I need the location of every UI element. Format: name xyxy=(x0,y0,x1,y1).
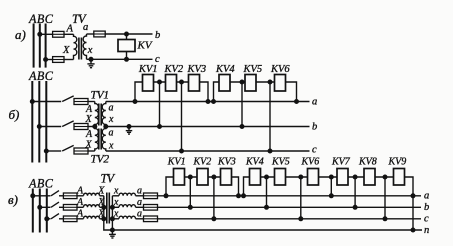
wire secondary neutral to winding b (v) xyxy=(112,206,119,208)
wire TV primary bottom stub (a) xyxy=(73,58,75,60)
switch blade phase C (v) xyxy=(51,214,59,219)
svg-text:a: a xyxy=(109,128,114,139)
wire secondary winding to fuse b (v) xyxy=(136,206,144,208)
node riser KV6/KV7 on line a (v) xyxy=(329,194,333,198)
wire secondary winding to fuse c (v) xyxy=(136,218,144,220)
node primary neutral row b (v) xyxy=(102,205,106,209)
node stub T KV1/KV2 (b) xyxy=(158,80,162,84)
stub to riser left of KV1 (v) xyxy=(166,177,174,196)
primary neutral bus (v) xyxy=(104,196,113,230)
svg-text:KV8: KV8 xyxy=(358,157,377,168)
svg-text:KV1: KV1 xyxy=(167,157,186,168)
svg-text:KV6: KV6 xyxy=(301,157,320,168)
junction busbar A / phase wire (b) xyxy=(30,100,34,104)
svg-text:b: b xyxy=(155,30,160,41)
transformer TV1 secondary winding (b) xyxy=(102,102,106,127)
svg-text:A: A xyxy=(76,197,84,208)
secondary neutral bus (v) xyxy=(111,196,113,230)
svg-text:TV1: TV1 xyxy=(91,90,109,102)
TV secondary winding phase b (v) xyxy=(119,205,136,208)
busbar A (b) xyxy=(31,81,33,163)
node primary neutral row c (v) xyxy=(102,217,106,221)
node riser KV4-left on line a (b) xyxy=(212,100,216,104)
svg-text:TV2: TV2 xyxy=(91,154,110,166)
busbar C (v) xyxy=(46,189,48,233)
line c (b) xyxy=(106,150,310,152)
link KV4-KV5 with riser to line b (v) xyxy=(261,177,275,207)
relay KV6 (b) xyxy=(275,75,286,92)
svg-text:a: a xyxy=(137,185,142,196)
fuse phase B (v) xyxy=(63,205,77,211)
riser KV9 right to line n (v) xyxy=(405,177,414,230)
busbar C (b) xyxy=(45,81,47,163)
wire primary winding to neutral phase B (v) xyxy=(100,206,104,208)
relay KV4 (b) xyxy=(219,75,230,92)
line c (v) xyxy=(158,218,422,220)
line a (b) xyxy=(106,101,310,103)
svg-text:X: X xyxy=(62,45,70,56)
relay KV (a) xyxy=(118,40,135,52)
svg-text:a: a xyxy=(312,96,317,107)
phase C wire to switch (b) xyxy=(46,150,61,152)
svg-text:A: A xyxy=(76,185,84,196)
node stub T KV7/KV8 (v) xyxy=(353,175,357,179)
wire secondary winding to fuse a (v) xyxy=(136,195,144,197)
svg-text:c: c xyxy=(312,145,317,156)
node riser KV6-right on line a (b) xyxy=(295,100,299,104)
TV secondary winding phase c (v) xyxy=(119,216,136,219)
link KV7-KV8 with riser to line b (v) xyxy=(348,177,364,207)
link KV5-KV6 with riser to line c (v) xyxy=(286,177,308,219)
fuse secondary b (v) xyxy=(144,205,158,211)
phase C wire to switch (v) xyxy=(47,218,51,220)
ground (b) xyxy=(126,127,132,135)
svg-text:x: x xyxy=(108,114,114,125)
TV primary winding phase C (v) xyxy=(84,216,100,219)
switch blade phase B (b) xyxy=(62,121,73,127)
riser to line a left of KV1 (b) xyxy=(135,82,143,102)
transformer TV secondary winding (a) xyxy=(83,34,86,58)
node ground junction (a) xyxy=(89,57,93,61)
link KV1-KV2 with riser to line b (b) xyxy=(154,82,166,127)
junction on busbar B (a) xyxy=(38,32,42,36)
riser KV4 left from line a (v) xyxy=(244,177,250,196)
wire c (a) xyxy=(87,58,153,60)
relay KV1 (v) xyxy=(174,169,185,186)
node stub T KV8/KV9 (v) xyxy=(383,175,387,179)
fuse FU2 (a) xyxy=(53,57,64,63)
relay KV2 (b) xyxy=(166,75,177,92)
line b (b) xyxy=(106,126,310,128)
ground (a) xyxy=(87,59,94,67)
svg-text:X: X xyxy=(85,114,93,125)
svg-text:a: a xyxy=(424,190,429,201)
node riser KV5/KV6 on line c (v) xyxy=(299,217,303,221)
junction busbar A / phase wire (v) xyxy=(31,194,35,198)
node neutral / ground junction (v) xyxy=(110,228,114,232)
phase A wire to switch (b) xyxy=(32,101,61,103)
node secondary neutral row b (v) xyxy=(110,205,114,209)
wire TV secondary bottom stub (a) xyxy=(86,58,88,60)
transformer TV2 primary winding (b) xyxy=(95,127,99,152)
riser KV3 right to line a (v) xyxy=(232,177,239,196)
relay KV1 (b) xyxy=(143,75,154,92)
node riser KV5/KV6 on line c (b) xyxy=(268,149,272,153)
wire b (a) xyxy=(105,33,152,35)
node riser KV4/KV5 on line b (b) xyxy=(240,125,244,129)
phase B wire to switch (b) xyxy=(39,126,61,128)
transformer TV core (a) xyxy=(79,38,82,60)
switch blade phase B (v) xyxy=(51,202,59,207)
relay KV2 (v) xyxy=(197,169,208,186)
wire fuse FU1 to TV primary A (a) xyxy=(64,33,74,35)
svg-text:ABC: ABC xyxy=(28,69,54,83)
busbar B (a) xyxy=(39,24,41,68)
link KV1-KV2 with riser to line b (v) xyxy=(185,177,198,207)
node stub T KV4/KV5 (b) xyxy=(240,80,244,84)
relay KV3 (v) xyxy=(221,169,232,186)
svg-text:KV9: KV9 xyxy=(388,157,407,168)
transformer TV2 core (b) xyxy=(99,129,101,150)
TV secondary winding phase a (v) xyxy=(119,193,136,196)
transformer TV2 secondary winding (b) xyxy=(102,127,106,152)
svg-text:KV2: KV2 xyxy=(164,64,184,75)
node ground junction on line b (b) xyxy=(127,125,131,129)
junction busbar C / phase wire (v) xyxy=(45,217,49,221)
node riser KV1/KV2 on line b (b) xyxy=(158,125,162,129)
junction busbar C / phase wire (b) xyxy=(44,149,48,153)
svg-text:KV2: KV2 xyxy=(193,157,212,168)
svg-text:X: X xyxy=(97,185,105,196)
transformer TV core (v) xyxy=(107,193,110,224)
node riser KV1/KV2 on line b (v) xyxy=(188,205,192,209)
node riser KV4-left on line a (v) xyxy=(242,194,246,198)
node stub T KV5/KV6 (v) xyxy=(299,175,303,179)
fuse FU3 (a) xyxy=(94,31,105,37)
svg-text:b: b xyxy=(312,121,317,132)
svg-text:x: x xyxy=(113,185,119,196)
svg-text:ABC: ABC xyxy=(28,177,54,191)
busbar C (a) xyxy=(45,24,47,68)
wire busbar C to fuse FU2 (a) xyxy=(46,59,53,61)
switch blade phase A (b) xyxy=(62,96,73,102)
node riser KV8/KV9 on line c (v) xyxy=(383,217,387,221)
node riser KV7/KV8 on line b (v) xyxy=(353,205,357,209)
node riser KV2/KV3 on line c (v) xyxy=(212,217,216,221)
node c / KV bottom junction (a) xyxy=(125,57,129,61)
link KV2-KV3 with riser to line c (v) xyxy=(208,177,221,219)
relay KV6 (v) xyxy=(308,169,319,186)
switch blade phase C (b) xyxy=(62,145,73,151)
svg-text:KV6: KV6 xyxy=(270,64,290,75)
fuse phase A (v) xyxy=(63,193,77,199)
node riser KV3-right on line a (b) xyxy=(206,100,210,104)
svg-text:KV5: KV5 xyxy=(243,64,263,75)
wire switch to fuse phase B (v) xyxy=(59,206,63,208)
svg-text:X: X xyxy=(85,140,93,151)
svg-text:x: x xyxy=(113,208,119,219)
svg-text:A: A xyxy=(85,129,93,140)
svg-text:TV: TV xyxy=(101,172,116,186)
node riser KV1-left on line a (v) xyxy=(164,194,168,198)
node stub T KV2/KV3 (v) xyxy=(212,175,216,179)
svg-text:x: x xyxy=(108,141,114,152)
wire primary winding to neutral phase A (v) xyxy=(100,195,104,197)
relay KV8 (v) xyxy=(364,169,375,186)
svg-text:x: x xyxy=(87,45,93,56)
node riser KV9 crossing line a (v) xyxy=(411,194,415,198)
junction busbar B / phase wire (v) xyxy=(38,205,42,209)
node stub T KV4/KV5 (v) xyxy=(265,175,269,179)
fuse secondary a (v) xyxy=(144,193,158,199)
node riser KV4/KV5 on line b (v) xyxy=(265,205,269,209)
svg-text:A: A xyxy=(66,24,74,35)
svg-text:KV1: KV1 xyxy=(138,64,158,75)
busbar B (v) xyxy=(39,189,41,233)
wire secondary neutral to winding a (v) xyxy=(112,195,119,197)
fuse phase A (b) xyxy=(74,99,88,105)
wire fuse to primary winding phase A (v) xyxy=(77,195,84,197)
wire busbar B to fuse FU1 (a) xyxy=(40,33,53,35)
node TV1-x / TV2-a (b) xyxy=(104,125,108,129)
node secondary neutral row c (v) xyxy=(110,217,114,221)
svg-text:a: a xyxy=(137,197,142,208)
riser KV4 left from line a (b) xyxy=(214,82,220,102)
TV primary winding phase B (v) xyxy=(84,205,100,208)
svg-text:б): б) xyxy=(9,107,20,122)
wire switch to fuse phase C (v) xyxy=(59,218,63,220)
svg-text:KV4: KV4 xyxy=(215,64,235,75)
wire TV secondary a to fuse FU3 (a) xyxy=(87,33,94,35)
link KV8-KV9 with riser to line c (v) xyxy=(375,177,394,219)
line b (v) xyxy=(158,206,422,208)
svg-text:KV7: KV7 xyxy=(331,157,351,168)
TV primary winding phase A (v) xyxy=(84,193,100,196)
wire fuse to primary winding phase C (v) xyxy=(77,218,84,220)
svg-text:ABC: ABC xyxy=(28,12,54,26)
line n (v) xyxy=(112,229,422,231)
node stub T KV5/KV6 (b) xyxy=(268,80,272,84)
transformer TV1 primary winding (b) xyxy=(95,102,99,127)
relay KV5 (b) xyxy=(245,75,256,92)
wire KV bottom lead (a) xyxy=(126,52,128,60)
fuse FU1 (a) xyxy=(53,31,64,37)
svg-text:KV3: KV3 xyxy=(217,157,236,168)
svg-text:A: A xyxy=(76,208,84,219)
wire KV top lead (a) xyxy=(126,34,128,40)
node TV1-X / TV2-A (b) xyxy=(93,125,97,129)
relay KV3 (b) xyxy=(189,75,200,92)
wire primary winding to neutral phase C (v) xyxy=(100,218,104,220)
wire fuse to TV2 primary X (b) xyxy=(88,150,95,152)
fuse secondary c (v) xyxy=(144,216,158,222)
wire fuse to TV1 primary A (b) xyxy=(88,101,95,103)
wire fuse to TV1-X / TV2-A junction (b) xyxy=(88,126,95,128)
link KV4-KV5 with riser to line b (b) xyxy=(230,82,245,127)
relay KV9 (v) xyxy=(394,169,405,186)
switch blade phase A (v) xyxy=(51,191,59,196)
relay KV5 (v) xyxy=(275,169,286,186)
transformer TV primary winding (a) xyxy=(74,34,77,57)
svg-text:a: a xyxy=(137,208,142,219)
relay KV7 (v) xyxy=(337,169,348,186)
phase B wire to switch (v) xyxy=(40,206,51,208)
svg-text:a: a xyxy=(109,103,114,114)
node riser KV3-right on line a (v) xyxy=(237,194,241,198)
svg-text:b: b xyxy=(424,202,429,213)
fuse phase C (v) xyxy=(63,216,77,222)
fuse phase C (b) xyxy=(74,148,88,154)
node stub T KV6/KV7 (v) xyxy=(329,175,333,179)
node b / KV top junction (a) xyxy=(125,32,129,36)
wire fuse to primary winding phase B (v) xyxy=(77,206,84,208)
link KV6-KV7 with riser to line a (v) xyxy=(319,177,338,196)
line a (v) xyxy=(158,195,422,197)
svg-text:KV: KV xyxy=(137,40,153,52)
busbar B (b) xyxy=(38,81,40,163)
relay KV4 (v) xyxy=(250,169,261,186)
node stub T KV1/KV2 (v) xyxy=(188,175,192,179)
wire fuse FU2 to TV primary X (a) xyxy=(64,59,74,61)
phase A wire to switch (v) xyxy=(33,195,51,197)
svg-text:KV5: KV5 xyxy=(271,157,290,168)
svg-text:KV3: KV3 xyxy=(187,64,207,75)
node riser KV9-right on line n (v) xyxy=(411,228,415,232)
junction on busbar C (a) xyxy=(44,58,48,62)
svg-text:c: c xyxy=(424,213,429,224)
node stub T KV2/KV3 (b) xyxy=(180,80,184,84)
svg-text:n: n xyxy=(424,225,429,236)
ground (v) xyxy=(109,230,116,238)
svg-text:в): в) xyxy=(8,192,18,207)
wire switch to fuse phase A (v) xyxy=(59,195,63,197)
wire secondary neutral to winding c (v) xyxy=(112,218,119,220)
riser KV6 right to line a (b) xyxy=(286,82,297,102)
link KV5-KV6 with riser to line c (b) xyxy=(256,82,275,151)
node riser KV2/KV3 on line c (b) xyxy=(180,149,184,153)
link KV2-KV3 with riser to line c (b) xyxy=(177,82,189,151)
busbar A (a) xyxy=(33,24,35,68)
svg-text:KV4: KV4 xyxy=(245,157,264,168)
node riser KV1-left on line a (b) xyxy=(133,100,137,104)
junction busbar B / phase wire (b) xyxy=(37,125,41,129)
riser KV3 right to line a (b) xyxy=(200,82,209,102)
transformer TV1 core (b) xyxy=(99,104,101,126)
svg-text:x: x xyxy=(113,197,119,208)
fuse phase B (b) xyxy=(74,124,88,130)
busbar A (v) xyxy=(32,189,34,233)
svg-text:а): а) xyxy=(15,27,26,42)
svg-text:a: a xyxy=(83,22,88,33)
